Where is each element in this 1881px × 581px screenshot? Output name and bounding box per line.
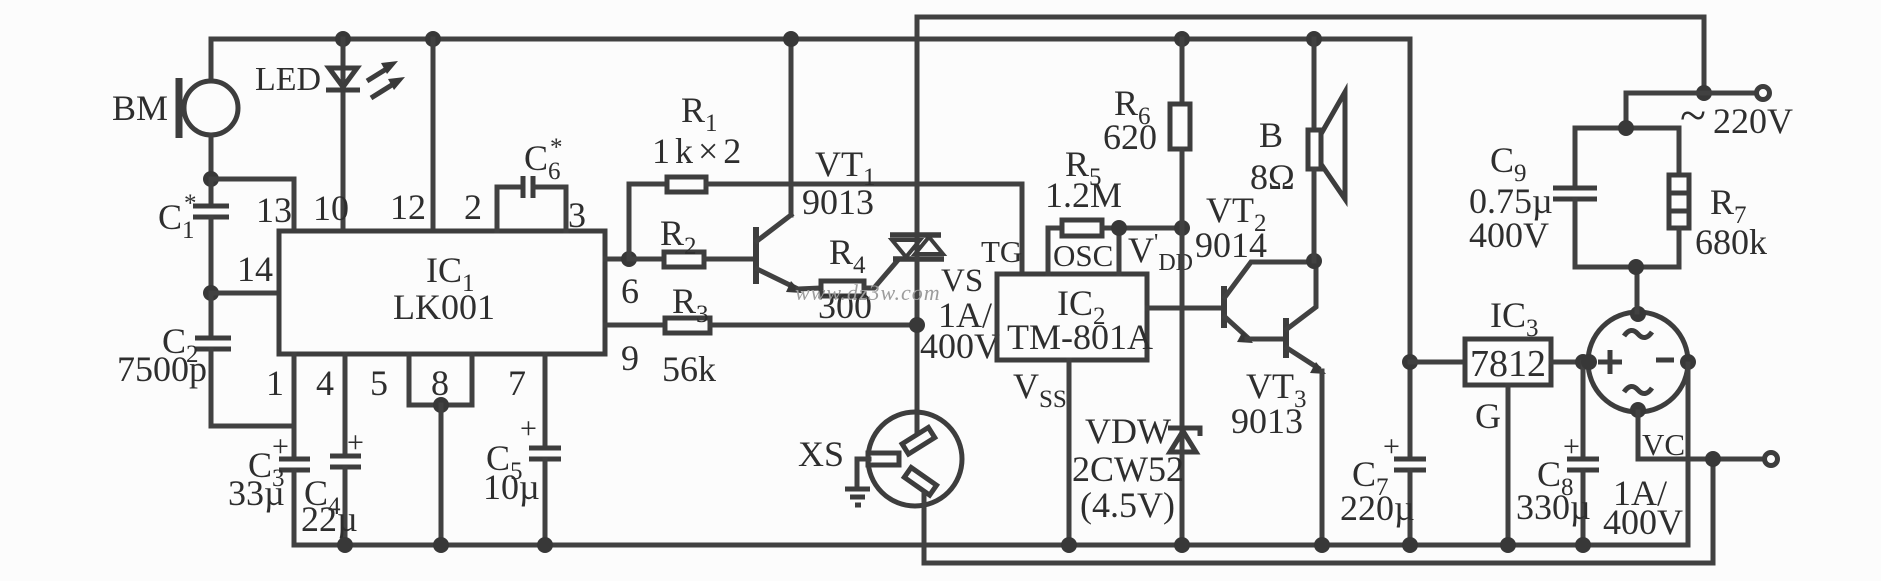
svg-text:+: +	[520, 412, 537, 445]
svg-text:7500p: 7500p	[117, 349, 207, 389]
svg-text:56k: 56k	[662, 349, 716, 389]
wire: top +12V rail	[211, 37, 1410, 42]
svg-text:7: 7	[508, 363, 526, 403]
wire: topmost 220V rail from triac MT2	[917, 17, 1704, 93]
svg-text:G: G	[1475, 396, 1501, 436]
transistor VT1 9013	[756, 39, 876, 293]
svg-text:TG: TG	[981, 234, 1022, 269]
svg-text:12: 12	[390, 187, 426, 227]
capacitor C3 33u on pin 1	[228, 354, 310, 545]
node: IC3 output junction	[1402, 354, 1418, 370]
resistor R6 620	[1103, 31, 1190, 452]
node: C4 ground	[337, 537, 353, 553]
snubber C9 / R7 network	[1469, 120, 1767, 275]
svg-text:10: 10	[313, 188, 349, 228]
node: pin 6 junction	[621, 251, 637, 267]
wire: IC1 pin 12 from rail	[425, 31, 441, 47]
node: IC2 Vss ground	[1061, 537, 1077, 553]
svg-text:+: +	[272, 430, 289, 463]
node: VT1 collector on rail	[783, 31, 799, 47]
capacitor C5 10u on pin 7	[483, 354, 561, 553]
wire: TG line down to IC2	[1020, 184, 1025, 274]
svg-text:R4: R4	[829, 232, 866, 279]
wire: IC2 Vss to ground rail	[1067, 360, 1072, 545]
node: C1/C2/pin14 junction	[203, 285, 219, 301]
svg-text:4: 4	[316, 363, 334, 403]
svg-text:7812: 7812	[1470, 343, 1546, 385]
IC1 pin 8 stub	[409, 354, 472, 553]
bridge rectifier VC 1A/400V	[1581, 306, 1696, 542]
wire: lowest AC return rail	[924, 459, 1713, 563]
svg-text:8: 8	[431, 363, 449, 403]
node: VDW ground	[1174, 537, 1190, 553]
node: VT2 collector / speaker junction	[1306, 253, 1322, 269]
wire: from 220V junction to snubber	[1626, 93, 1704, 128]
capacitor C4 22u on pin 4	[301, 354, 364, 545]
capacitor C7 220u	[1340, 430, 1426, 545]
svg-text:220µ: 220µ	[1340, 488, 1415, 528]
svg-text:LK001: LK001	[393, 287, 495, 327]
wire: +12V feed down to IC3 output (with C7)	[1408, 39, 1413, 459]
wire: main ground rail	[294, 543, 1688, 548]
svg-text:*: *	[550, 134, 563, 161]
node: R3 / triac MT1 junction	[909, 317, 925, 333]
svg-text:9: 9	[621, 338, 639, 378]
svg-text:400V: 400V	[1603, 502, 1683, 542]
svg-text:VDW: VDW	[1085, 411, 1171, 451]
svg-text:VS: VS	[941, 263, 983, 299]
IC2 TM-801A	[997, 274, 1153, 360]
svg-text:+: +	[1383, 430, 1400, 463]
svg-text:*: *	[184, 190, 197, 217]
node: C8 junction	[1575, 354, 1591, 370]
svg-text:www.dz3w.com: www.dz3w.com	[795, 280, 941, 305]
transistor VT2 9014	[1195, 190, 1314, 343]
svg-text:9013: 9013	[802, 182, 874, 222]
node: BM/C1/pin13 junction	[203, 171, 219, 187]
speaker B 8ohm	[1250, 31, 1345, 261]
resistor R1 1k x2	[629, 90, 1022, 259]
wire: to IC1 pin 13	[211, 179, 294, 231]
socket XS	[798, 412, 962, 563]
svg-text:IC3: IC3	[1490, 295, 1539, 342]
OSC box with resistor R5 1.2M	[1045, 144, 1182, 274]
svg-text:~: ~	[1680, 89, 1706, 142]
svg-text:LED: LED	[255, 61, 321, 98]
svg-text:XS: XS	[798, 434, 844, 474]
node: VT3 emitter ground	[1314, 537, 1330, 553]
IC3 7812	[1410, 295, 1589, 545]
svg-text:R1: R1	[681, 90, 718, 137]
terminal: AC line 2	[1765, 453, 1778, 466]
wire: bridge minus down to ground rail	[1686, 364, 1691, 545]
svg-text:+: +	[1563, 430, 1580, 463]
triac VS 1A/400V	[890, 17, 1022, 432]
svg-text:22µ: 22µ	[301, 499, 358, 539]
svg-text:(4.5V): (4.5V)	[1080, 485, 1175, 525]
zener diode VDW 2CW52 4.5V	[1072, 411, 1200, 545]
node: AC return junction	[1705, 451, 1721, 467]
node: C7 ground	[1402, 537, 1418, 553]
node: 220V junction	[1696, 85, 1712, 101]
svg-text:13: 13	[256, 190, 292, 230]
transistor VT3 9013	[1231, 261, 1326, 545]
resistor R4 300	[818, 232, 898, 326]
svg-text:VSS: VSS	[1013, 366, 1067, 413]
svg-text:BM: BM	[112, 88, 168, 128]
terminal: AC line 1	[1757, 87, 1770, 100]
svg-text:400V: 400V	[1469, 215, 1549, 255]
svg-text:1: 1	[266, 363, 284, 403]
svg-text:9013: 9013	[1231, 401, 1303, 441]
svg-text:680k: 680k	[1695, 222, 1767, 262]
svg-text:14: 14	[237, 249, 273, 289]
wire: bridge top to snubber	[1635, 267, 1640, 312]
svg-text:2: 2	[464, 187, 482, 227]
node: R6 line junction	[1174, 220, 1190, 236]
svg-text:B: B	[1259, 115, 1283, 155]
svg-text:8Ω: 8Ω	[1250, 157, 1295, 197]
svg-text:33µ: 33µ	[228, 473, 285, 513]
svg-text:R2: R2	[660, 213, 697, 260]
svg-text:TM-801A: TM-801A	[1007, 317, 1153, 357]
ground at XS	[845, 459, 870, 505]
svg-text:R3: R3	[672, 281, 709, 328]
svg-text:1.2M: 1.2M	[1045, 175, 1122, 215]
svg-text:C9: C9	[1490, 140, 1527, 187]
svg-text:10µ: 10µ	[483, 467, 540, 507]
svg-text:220V: 220V	[1713, 101, 1793, 141]
capacitor C8 330u	[1516, 362, 1599, 545]
capacitor C1	[158, 179, 229, 293]
svg-text:620: 620	[1103, 117, 1157, 157]
wire: to IC1 pin 14	[211, 291, 279, 296]
svg-text:330µ: 330µ	[1516, 487, 1591, 527]
svg-text:OSC: OSC	[1053, 238, 1113, 273]
wire: bridge AC bottom to terminal 2	[1638, 412, 1764, 459]
node: OSC/Vdd junction	[1111, 220, 1127, 236]
svg-text:400V: 400V	[920, 326, 1000, 366]
resistor R2	[629, 213, 754, 267]
node: IC3 G ground	[1500, 537, 1516, 553]
svg-text:3: 3	[568, 195, 586, 235]
svg-text:1k×2: 1k×2	[652, 131, 746, 171]
microphone BM	[112, 39, 238, 179]
svg-text:9014: 9014	[1195, 225, 1267, 265]
svg-text:2CW52: 2CW52	[1072, 449, 1184, 489]
resistor R3 56k on pin 9	[605, 281, 917, 389]
wire: to AC terminal 1	[1704, 91, 1756, 96]
capacitor C6 on pins 2-3	[497, 134, 566, 231]
svg-text:6: 6	[621, 271, 639, 311]
capacitor C2 7500p	[117, 293, 294, 426]
wire: pin 6 stub	[605, 257, 629, 262]
wire: IC2 output to VT2 base	[1147, 306, 1224, 311]
IC1 LK001	[237, 187, 639, 403]
svg-text:5: 5	[370, 363, 388, 403]
node: C8 ground	[1575, 537, 1591, 553]
svg-text:+: +	[347, 426, 364, 459]
LED with light arrows	[255, 31, 405, 231]
